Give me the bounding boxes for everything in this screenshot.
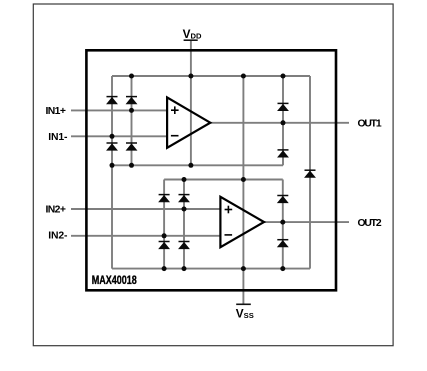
VSS terminal [236, 304, 254, 320]
svg-text:IN1+: IN1+ [46, 106, 66, 117]
wire ch1 VDD rail [112, 75, 310, 77]
diode D2 (IN1+ to VDD rail) [126, 97, 137, 104]
svg-text:MAX40018: MAX40018 [92, 275, 138, 287]
wire IN1+ protection column [131, 76, 133, 165]
svg-text:IN2+: IN2+ [46, 205, 66, 216]
diode D6 (ch1 VSS rail to OUT1) [278, 150, 289, 157]
wire pin IN2- [71, 235, 220, 237]
svg-text:IN2-: IN2- [48, 230, 68, 241]
wire pin OUT2 [264, 221, 349, 223]
wire right bus with substrate diode [309, 76, 311, 269]
diode D5 (OUT1 to VDD rail) [278, 103, 289, 110]
node ch1 rail / OUT1 column [281, 74, 286, 79]
node ch1 rail / VSS line [241, 74, 246, 79]
diode D12 (ch2 VSS rail to OUT2) [277, 240, 288, 247]
node ch2 VSS rail / IN2- column [162, 266, 167, 271]
wire VDD vertical (VDD terminal to ch1 VSS rail through U1A) [190, 40, 192, 165]
wire ch1 VSS rail [112, 164, 283, 166]
op-amp U1B [220, 197, 264, 247]
node ch1 VSS rail / VDD line [188, 163, 193, 168]
svg-text:IN1-: IN1- [48, 132, 68, 143]
wire pin IN1+ [71, 109, 167, 111]
node ch2 VSS rail / OUT2 column [280, 266, 285, 271]
diode D11 (OUT2 to ch2 VDD rail) [277, 196, 288, 203]
diode D4 (ch1 VSS rail to IN1+) [126, 143, 137, 150]
wire IN1- protection column (ch1 VDD rail down to ch2 VSS rail) [111, 76, 113, 269]
wire ch2 VSS rail [112, 268, 310, 270]
diode D3 (ch1 VSS rail to IN1-) [107, 143, 118, 150]
node IN1+ [129, 108, 134, 113]
node ch1 rail / IN1+ column [129, 74, 134, 79]
diode D8 (IN2+ to ch2 VDD rail) [179, 195, 190, 202]
node ch2 rail / IN2+ column [182, 177, 187, 182]
node ch1 VSS rail / IN1+ column [129, 163, 134, 168]
diode D10 (ch2 VSS rail to IN2+) [179, 242, 190, 249]
diode D9 (ch2 VSS rail to IN2-) [159, 242, 170, 249]
node ch2 rail / VSS line [241, 177, 246, 182]
diode D7 (IN2- to ch2 VDD rail) [159, 195, 170, 202]
diode D13 (substrate VSS to VDD) [305, 170, 316, 177]
diode D1 (IN1- to VDD rail) [107, 97, 118, 104]
node IN2- [162, 233, 167, 238]
wire OUT1 protection column [282, 76, 284, 165]
VDD terminal [183, 27, 202, 41]
wire pin IN2+ [71, 208, 220, 210]
wire IN2+ protection column [183, 180, 185, 269]
node ch1 VSS rail / IN1- column [110, 163, 115, 168]
wire IN2- protection column [163, 180, 165, 269]
IC outline MAX40018 [86, 50, 336, 290]
node ch1 rail / VDD line [188, 74, 193, 79]
node OUT2 [280, 220, 285, 225]
node ch2 VSS rail / IN2+ column [182, 266, 187, 271]
svg-text:OUT2: OUT2 [358, 218, 382, 229]
wire VSS vertical (ch1 VDD rail through U1B to VSS terminal) [242, 76, 244, 304]
wire pin IN1- [71, 135, 167, 137]
node IN1- [110, 134, 115, 139]
wire OUT2 protection column [282, 180, 284, 269]
node ch2 VSS rail / VSS line [241, 266, 246, 271]
op-amp U1A [167, 97, 210, 147]
node IN2+ [182, 207, 187, 212]
wire ch2 VDD rail [164, 179, 283, 181]
node OUT1 [281, 120, 286, 125]
svg-text:OUT1: OUT1 [358, 119, 382, 130]
wire pin OUT1 [210, 122, 349, 124]
